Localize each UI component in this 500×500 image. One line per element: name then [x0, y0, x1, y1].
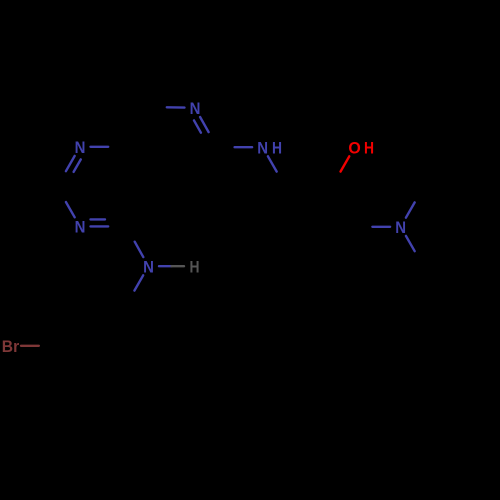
- bond N1-C2: [66, 156, 75, 171]
- bond C2-N3: [66, 202, 75, 217]
- svg-text:O: O: [348, 138, 360, 157]
- svg-text:N: N: [75, 218, 86, 237]
- svg-text:H: H: [364, 138, 374, 157]
- svg-text:N: N: [257, 138, 268, 157]
- bond C12-N13: [372, 226, 390, 228]
- bond N1-C8a: [91, 146, 109, 148]
- bond C8-N7: [167, 106, 185, 109]
- bond N9-H9: [159, 265, 172, 267]
- svg-text:H: H: [190, 257, 200, 276]
- svg-text:N: N: [143, 257, 154, 276]
- svg-text:N: N: [75, 138, 86, 157]
- bond N13-C14: [406, 202, 415, 217]
- svg-text:N: N: [190, 99, 201, 118]
- svg-text:Br: Br: [2, 337, 20, 356]
- bond C6-N10: [235, 146, 253, 148]
- bond N7-C6: [200, 117, 209, 132]
- bond C11-O: [341, 156, 350, 171]
- bond N3-C4: [91, 225, 109, 227]
- bond C3p-Br: [21, 345, 39, 347]
- bond N10-C10: [268, 156, 277, 171]
- bond C4-N9: [135, 242, 144, 257]
- bond N13-C16: [406, 236, 415, 251]
- bond N9-C1p: [134, 275, 143, 290]
- svg-text:H: H: [272, 138, 282, 157]
- svg-text:N: N: [395, 218, 406, 237]
